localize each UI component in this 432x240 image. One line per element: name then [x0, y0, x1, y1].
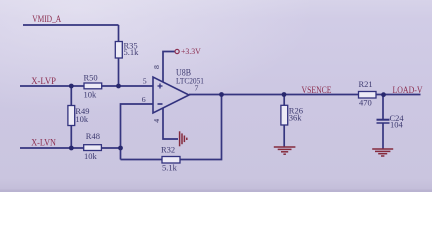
junction: R48 out / feedback [118, 146, 123, 151]
wire C24 column top [382, 95, 384, 120]
svg-text:X-LVP: X-LVP [31, 76, 56, 86]
wire R49 column bottom [70, 126, 72, 149]
wire R26 to ground [283, 125, 285, 148]
svg-text:R48: R48 [86, 131, 100, 141]
wire R50 to op-amp pin 5 [102, 85, 153, 87]
wire R49 column top [70, 86, 72, 106]
svg-text:VSENCE: VSENCE [302, 85, 332, 95]
svg-text:4: 4 [152, 119, 161, 123]
svg-text:5: 5 [143, 76, 147, 85]
svg-text:7: 7 [195, 84, 199, 93]
svg-text:LTC2051: LTC2051 [176, 76, 204, 86]
wire pin 6 to feedback column [121, 104, 154, 160]
junction: output / R26 [282, 92, 287, 97]
svg-text:X-LVN: X-LVN [31, 138, 56, 148]
wire pin 4 to ground [163, 108, 178, 139]
wire R26 column top [283, 95, 285, 106]
svg-text:104: 104 [390, 120, 404, 130]
junction: output / R32 feedback [219, 92, 224, 97]
wire R32 row right up to output [180, 95, 222, 160]
svg-text:10k: 10k [75, 114, 89, 124]
wire pin 8 to +3.3V [163, 52, 175, 83]
minus input symbol [158, 103, 163, 105]
resistor R26 [281, 105, 303, 125]
capacitor C24 [377, 113, 405, 130]
resistor R21 [359, 79, 377, 108]
wire R21 to LOAD-V [376, 94, 421, 96]
resistor R49 [68, 106, 90, 126]
svg-text:10k: 10k [84, 151, 98, 161]
wire R35 bottom to X-LVP row [118, 58, 120, 86]
svg-text:R32: R32 [161, 145, 175, 155]
junction: R50 out / R35 [116, 84, 121, 89]
resistor R35 [115, 40, 139, 58]
junction: X-LVP / R49 [69, 84, 74, 89]
junction: X-LVN / R49 [69, 146, 74, 151]
resistor R48 [84, 131, 102, 161]
junction: R21 out / C24 [381, 92, 386, 97]
svg-text:R21: R21 [359, 79, 373, 89]
ground (op-amp pin 4, rotated) [180, 131, 187, 146]
op-amp U8B [142, 65, 204, 123]
ground (below C24) [372, 149, 393, 156]
svg-text:470: 470 [359, 98, 372, 108]
wire op-amp output row [189, 94, 359, 96]
svg-text:+3.3V: +3.3V [181, 47, 201, 56]
svg-text:5.1k: 5.1k [162, 163, 178, 173]
plus input symbol [158, 85, 163, 87]
svg-text:5.1k: 5.1k [124, 47, 140, 57]
svg-text:8: 8 [152, 65, 161, 69]
wire R48 to feedback column [101, 147, 120, 149]
wire X-LVP row [20, 85, 84, 87]
resistor R50 [84, 73, 102, 100]
svg-text:LOAD-V: LOAD-V [393, 85, 423, 95]
svg-text:10k: 10k [84, 90, 98, 100]
svg-text:36k: 36k [289, 112, 303, 122]
svg-text:6: 6 [142, 95, 146, 104]
power +3.3V [175, 47, 201, 56]
wire VMID_A horizontal [23, 24, 119, 26]
wire VMID_A vertical to R35 [118, 25, 120, 42]
wire R32 row left [121, 159, 163, 161]
ground (below R26) [274, 147, 296, 154]
wire C24 to ground [382, 124, 384, 150]
wire X-LVN row [20, 147, 84, 149]
resistor R32 [161, 145, 180, 173]
svg-text:R50: R50 [84, 73, 98, 83]
svg-text:VMID_A: VMID_A [32, 14, 61, 24]
